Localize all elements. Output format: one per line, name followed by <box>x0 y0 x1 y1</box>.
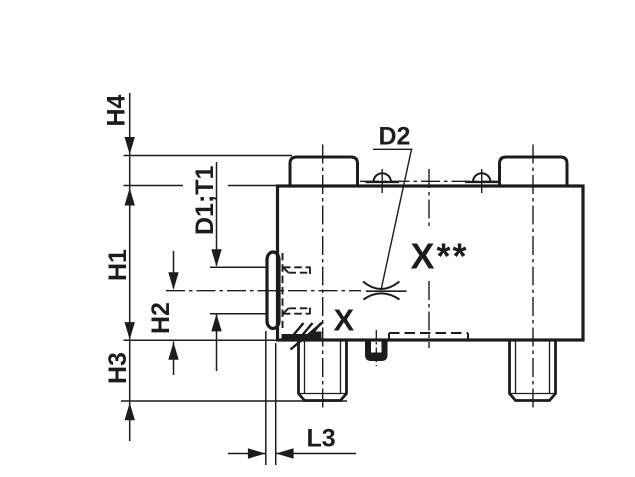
svg-text:X: X <box>334 303 355 338</box>
arrow H1 down / H3 top <box>125 322 135 340</box>
extension line body top <box>124 185 278 187</box>
arrow H4 down <box>125 137 135 155</box>
arrow D1T1 down <box>211 249 221 266</box>
bottom stud left outline <box>299 340 347 401</box>
dimension line A (H4/H1/H3) <box>129 93 131 441</box>
screw dome left on top edge <box>374 173 391 182</box>
centerline set screw nub <box>375 330 377 366</box>
svg-text:L3: L3 <box>307 425 336 453</box>
bottom stud right outline <box>510 340 556 401</box>
tick dome left <box>381 169 383 193</box>
arrow H2 down <box>168 272 178 290</box>
svg-text:D2: D2 <box>379 122 411 150</box>
dimension line C (D1;T1) <box>216 162 218 371</box>
orifice arc top <box>363 282 400 290</box>
arrow H1 up <box>125 188 135 206</box>
hatch strokes <box>291 323 323 350</box>
orifice arc bottom <box>364 293 400 299</box>
extension line D1 bottom <box>210 313 267 315</box>
leader D2 <box>373 149 413 290</box>
centerline bolt left <box>322 145 324 411</box>
body main block <box>278 186 584 340</box>
hatch bar machined surface <box>282 334 322 339</box>
arrow L3 left <box>276 448 294 458</box>
L3 extension line flange face <box>265 331 267 465</box>
arrow L3 right <box>248 448 266 458</box>
screw dome right on top edge <box>473 173 490 182</box>
arrow H3 up <box>125 403 135 421</box>
centerline bolt right <box>532 145 534 411</box>
svg-text:H1: H1 <box>104 249 132 281</box>
dimension line B (H2) <box>173 251 175 375</box>
arrowheads <box>125 137 294 459</box>
orifice line <box>366 290 407 292</box>
extension line body bottom <box>124 339 284 341</box>
arrow H2 up <box>168 342 178 360</box>
hidden recess dashes bottom <box>389 333 468 339</box>
svg-text:X**: X** <box>411 236 469 277</box>
centerline horizontal top screws <box>360 180 502 182</box>
bottom stud left thread lines <box>299 340 347 394</box>
arrow D1T1 up <box>211 314 221 332</box>
bolt head right (top) <box>500 157 568 186</box>
svg-text:H3: H3 <box>104 352 132 384</box>
extension line bolt-head top <box>124 155 293 157</box>
slotted set screw nub bottom <box>365 340 388 361</box>
L3 dimension line <box>228 453 356 455</box>
extension line stud bottom <box>121 400 347 402</box>
centerline main vertical <box>428 169 430 348</box>
L3 extension line body face <box>275 343 277 465</box>
port flange left <box>267 252 279 329</box>
port hidden thread lines <box>283 253 311 328</box>
centerline port horizontal <box>166 290 361 292</box>
tick dome right <box>481 169 483 193</box>
extension line D1 top <box>210 266 267 268</box>
bottom stud right thread lines <box>510 340 556 394</box>
svg-text:D1;T1: D1;T1 <box>191 165 219 235</box>
bolt head left (top) <box>290 157 358 186</box>
svg-text:H2: H2 <box>147 302 175 334</box>
svg-text:H4: H4 <box>103 94 131 126</box>
